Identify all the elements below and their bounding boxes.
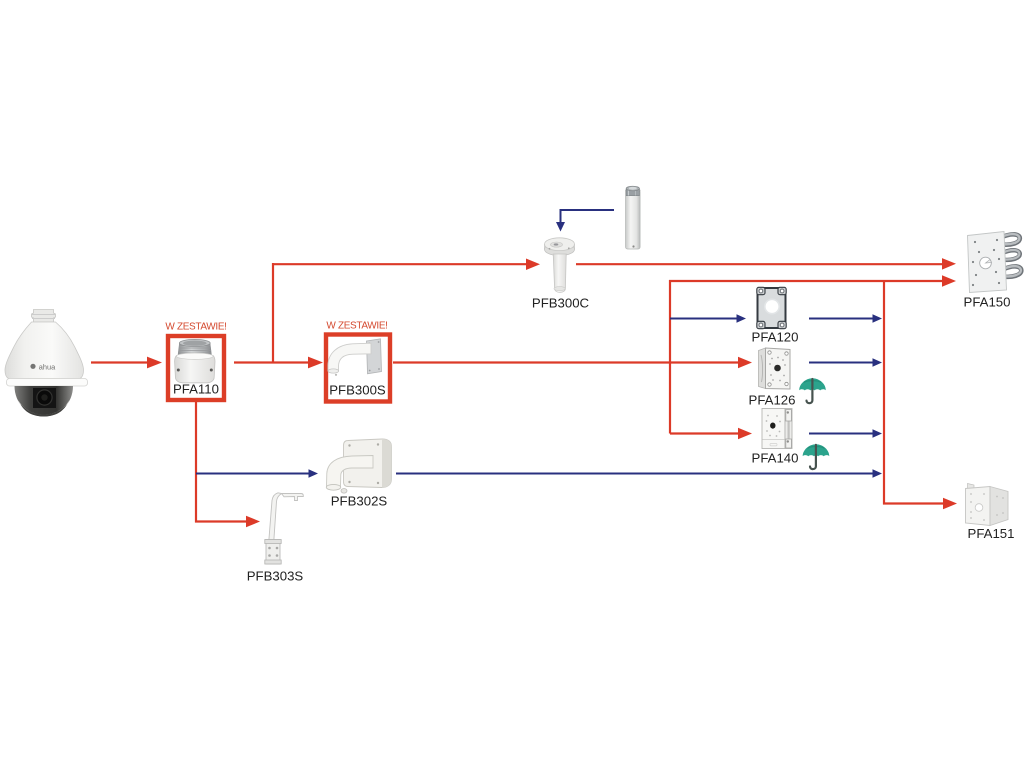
wire upper right to PFA150: [669, 280, 943, 282]
red frame PFB300S: [326, 335, 390, 402]
PFA126 junction box icon: [759, 348, 766, 389]
svg-text:PFB300C: PFB300C: [532, 296, 590, 311]
PFB300C ceiling mount icon: disc: [545, 244, 575, 255]
wire branch to PFB302S: [196, 473, 309, 475]
PFA140 junction box icon: [762, 409, 785, 449]
dome lower highlight band: [18, 400, 70, 416]
camera (Dahua PTZ dome): [5, 310, 88, 417]
camera smoked dome: [15, 386, 74, 417]
PFA150 pole mount icon: [968, 232, 1022, 293]
camera lens block: [33, 388, 56, 408]
wire PFB300S to PFA126: [393, 361, 739, 363]
wire collector to PFA151: [883, 502, 944, 504]
wire branch to PFA120: [670, 318, 737, 320]
PFA110 adapter icon: threaded top: [178, 343, 212, 356]
box PFB300S: [326, 321, 390, 402]
camera bell body: [5, 322, 84, 379]
camera rim ring: [7, 379, 88, 387]
svg-text:PFA150: PFA150: [964, 295, 1011, 310]
PFA110 adapter icon: white cup base: [175, 356, 215, 383]
svg-text:PFA140: PFA140: [752, 451, 799, 466]
PFA151 corner mount icon: [966, 484, 1009, 526]
PFB300S wall arm icon: curved arm: [328, 343, 371, 370]
wire collector vertical x884: [883, 280, 885, 505]
PFB300C group: [532, 186, 640, 310]
wire vertical branch x670: [669, 280, 671, 434]
svg-text:PFA126: PFA126: [749, 393, 796, 408]
clamp bands: [1001, 234, 1021, 277]
wire branch to PFB303S: [195, 520, 247, 522]
top hook: [282, 494, 304, 501]
wire PFA126 to collector: [809, 362, 873, 364]
wire PFA120 to collector: [809, 318, 873, 320]
PFB300S wall arm icon: wall plate: [367, 339, 382, 374]
bracket block: [266, 540, 280, 565]
wire pole adapter elbow down to PFB300C: [561, 210, 615, 223]
wire PFB300C to PFA150: [576, 263, 943, 265]
elbow arm: [327, 456, 374, 487]
umbrella icon (PFA126 weatherproof): [799, 378, 826, 403]
svg-text:W ZESTAWIE!: W ZESTAWIE!: [326, 321, 387, 332]
PFB302S wall bracket icon: [326, 439, 391, 493]
svg-text:W ZESTAWIE!: W ZESTAWIE!: [165, 322, 226, 333]
bottom brackets: [247, 439, 392, 584]
pole adapter cylinder (unlabeled): [626, 190, 641, 249]
wire branch to PFA140: [670, 432, 739, 434]
svg-text:PFA151: PFA151: [968, 526, 1015, 541]
wall plate: [344, 439, 392, 488]
pole: [269, 493, 282, 541]
wire camera to PFA110: [91, 361, 148, 363]
wire ceiling line to PFB300C: [272, 263, 527, 265]
camera threaded nipple: [32, 310, 56, 323]
red wires: [91, 258, 957, 527]
right mounts: [964, 232, 1022, 542]
box PFA110: [165, 322, 226, 401]
umbrella icon (PFA140 weatherproof): [803, 444, 830, 469]
wire riser to ceiling line: [272, 263, 274, 364]
wire PFA110 to PFB300S: [234, 361, 310, 363]
svg-text:PFB300S: PFB300S: [329, 383, 386, 398]
svg-text:PFB302S: PFB302S: [331, 494, 388, 509]
svg-text:PFA110: PFA110: [173, 382, 219, 397]
wire PFA110 down branch: [195, 402, 197, 523]
wire PFB302S to collector: [396, 473, 873, 475]
svg-text:ahua: ahua: [39, 362, 56, 371]
red frame PFA110: [168, 336, 224, 400]
PFA120 adapter plate icon: [758, 288, 786, 328]
svg-text:PFB303S: PFB303S: [247, 569, 304, 584]
PFB303S pole bracket icon: [265, 493, 304, 564]
blue wires: [196, 210, 882, 478]
plate: [968, 232, 1007, 293]
PFB300C ceiling mount icon: stem: [553, 254, 566, 292]
camera logo "alhua": [30, 364, 35, 369]
junction boxes right: [749, 287, 830, 469]
svg-text:PFA120: PFA120: [752, 330, 799, 345]
wire PFA140 to collector: [809, 433, 873, 435]
